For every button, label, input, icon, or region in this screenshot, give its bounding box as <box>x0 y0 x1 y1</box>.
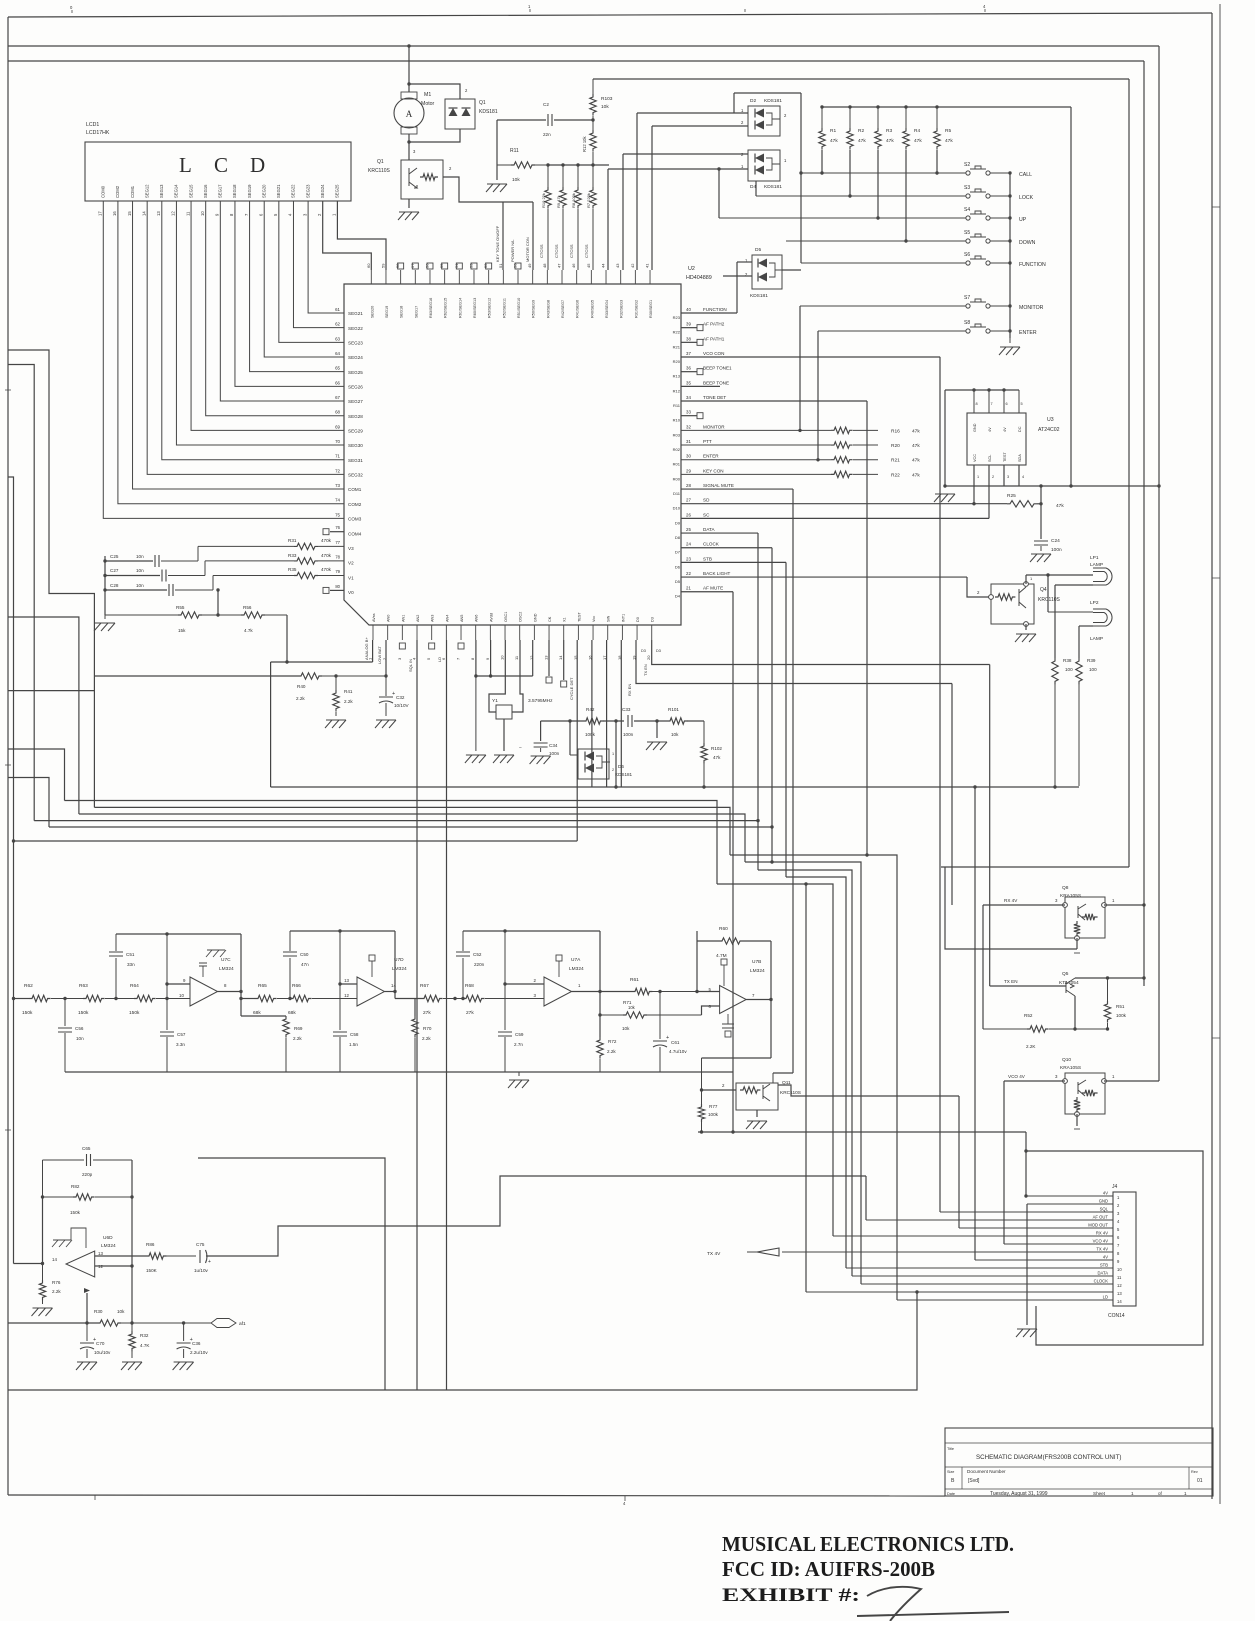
svg-text:28: 28 <box>686 483 691 488</box>
svg-text:R20: R20 <box>673 359 681 364</box>
wire SIGNAL MUTE drop to Q11 area <box>792 489 794 1073</box>
svg-text:34: 34 <box>686 395 691 400</box>
wire C34 top <box>540 721 542 741</box>
svg-text:1u/10v: 1u/10v <box>194 1268 208 1273</box>
wire AF MUTE drop <box>732 592 734 1132</box>
svg-text:AF PATH2: AF PATH2 <box>703 322 725 327</box>
svg-text:D2: D2 <box>750 98 756 104</box>
wire J4 pin 12 CLOCK <box>861 1283 1113 1285</box>
ground at C36 <box>173 1362 194 1370</box>
svg-text:12: 12 <box>344 993 349 998</box>
svg-text:SEG25: SEG25 <box>335 184 340 198</box>
wire U3 top pin 6 <box>1003 390 1005 413</box>
U2 top pin 56 stub <box>429 270 431 284</box>
svg-text:32: 32 <box>686 424 691 429</box>
wire R35 row to R55/R56 node <box>217 590 219 615</box>
handwritten underline <box>857 1612 1009 1616</box>
U2 bottom pin 7 stub <box>460 625 462 640</box>
svg-text:TX EN: TX EN <box>643 664 648 676</box>
wire U2 pin16 down <box>591 640 593 787</box>
wire VCO CON / SQL long vertical <box>939 357 941 1212</box>
resistor R42 100k <box>583 718 603 724</box>
svg-text:R53/SEG12: R53/SEG12 <box>488 298 492 318</box>
U2 bottom pin 6 stub <box>445 625 447 640</box>
svg-text:R32: R32 <box>140 1333 149 1338</box>
svg-text:COM1: COM1 <box>130 185 135 198</box>
svg-text:MUSICAL ELECTRONICS LTD.: MUSICAL ELECTRONICS LTD. <box>722 1532 1014 1556</box>
svg-text:RX EN: RX EN <box>627 684 632 696</box>
wire motor bottom to Q1 transistor <box>408 134 410 160</box>
svg-text:R21: R21 <box>673 344 681 349</box>
wire switch common vertical <box>1009 173 1011 338</box>
transistor Q10 KRA105S <box>1065 1073 1105 1114</box>
capacitor C50 47n <box>289 958 291 999</box>
svg-text:KEY CON: KEY CON <box>703 468 724 473</box>
svg-text:2: 2 <box>534 978 537 983</box>
svg-text:4.7k: 4.7k <box>244 628 253 633</box>
svg-text:COM2: COM2 <box>115 185 120 198</box>
wire crystal to ground <box>503 719 505 751</box>
svg-text:10n: 10n <box>136 583 144 588</box>
wire U2 pin36 stub <box>681 371 697 373</box>
wire step LD <box>730 855 897 1300</box>
svg-text:TX 4V: TX 4V <box>707 1251 721 1257</box>
wire U2 pin34 TONE DET <box>681 400 867 402</box>
svg-text:R55: R55 <box>176 605 185 610</box>
svg-text:13: 13 <box>156 211 161 216</box>
svg-text:D11: D11 <box>673 491 681 496</box>
NC box U2 top pin 58 <box>398 263 404 269</box>
switch S5 DOWN <box>966 239 970 243</box>
switch S2 CALL <box>966 171 970 175</box>
frame left ticks <box>5 390 11 1130</box>
svg-text:D: D <box>250 153 265 177</box>
wire column to U2 pin 44 <box>607 169 609 270</box>
wire to R61 <box>600 991 632 993</box>
ground at Q4 <box>1015 634 1036 642</box>
wire left net C audio input <box>8 477 14 1264</box>
ground at AVdd <box>465 755 486 763</box>
svg-text:SEG17: SEG17 <box>218 184 223 198</box>
svg-text:1: 1 <box>1131 1491 1134 1496</box>
svg-text:−: − <box>519 745 522 751</box>
title block rev cell divider <box>1188 1467 1190 1489</box>
svg-text:R63/SEG16: R63/SEG16 <box>429 298 433 318</box>
wire TONE DET drop <box>866 401 868 855</box>
svg-text:R102: R102 <box>711 746 722 751</box>
svg-text:13: 13 <box>98 1251 103 1256</box>
svg-text:10: 10 <box>200 211 205 216</box>
transistor Q11 KRC110S <box>736 1083 778 1110</box>
svg-text:R5: R5 <box>945 128 951 134</box>
capacitor C27 10n <box>162 570 166 582</box>
svg-text:470k: 470k <box>321 553 332 558</box>
svg-text:AN0: AN0 <box>387 615 391 622</box>
wire U2 pin14 stub down <box>563 640 565 680</box>
resistor R16 47k <box>681 429 831 431</box>
resistor R9 47k <box>562 165 564 187</box>
svg-text:MONITOR: MONITOR <box>703 424 725 429</box>
svg-text:SEG18: SEG18 <box>232 184 237 198</box>
wire bus y787 <box>271 786 1079 788</box>
wire LCD pin 16 to U2 pin 73 <box>133 201 344 489</box>
wire step DATA <box>758 870 852 1276</box>
U2 top pin 53 stub <box>473 270 475 284</box>
svg-text:C51: C51 <box>126 952 135 957</box>
svg-text:FUNCTION: FUNCTION <box>703 307 727 312</box>
svg-text:R40: R40 <box>297 684 306 689</box>
svg-text:75: 75 <box>335 512 340 517</box>
capacitor C70 10u/10v <box>86 1323 88 1341</box>
wire U7A output <box>572 991 600 993</box>
wire D5 to U2 pin40 net <box>736 262 738 313</box>
svg-text:1: 1 <box>784 158 787 163</box>
svg-text:3: 3 <box>1007 475 1009 479</box>
wire TX EN vertical <box>989 665 991 987</box>
svg-text:SEG15: SEG15 <box>188 184 193 198</box>
svg-text:R12: R12 <box>673 388 681 393</box>
svg-text:R4: R4 <box>914 128 920 134</box>
svg-text:63: 63 <box>335 336 340 341</box>
wire 4V rail drop to U3 <box>1070 107 1072 486</box>
resistor R71 10k <box>600 1014 623 1016</box>
wire J4 pin 11 DATA <box>852 1275 1113 1277</box>
U2 bottom pin 9 stub <box>489 625 491 640</box>
svg-text:R101: R101 <box>668 707 679 712</box>
svg-text:2.2k: 2.2k <box>293 1036 302 1041</box>
wire lamp feed <box>1026 574 1093 576</box>
svg-text:LP2: LP2 <box>1090 600 1099 606</box>
wire C2 right <box>554 119 593 121</box>
wire BACK LIGHT to Q4 <box>967 577 991 597</box>
svg-text:22n: 22n <box>543 132 551 137</box>
resistor R5 47k <box>935 105 938 108</box>
svg-text:2: 2 <box>449 166 452 171</box>
svg-text:AN2: AN2 <box>416 615 420 622</box>
wire filter ground rail <box>65 1071 733 1073</box>
wire U2 pin44 to D4 pin1 <box>608 168 748 170</box>
wire U2 pin1 down <box>372 640 374 662</box>
svg-text:KEY TONE ON/OFF: KEY TONE ON/OFF <box>495 225 500 262</box>
svg-text:100k: 100k <box>585 732 596 737</box>
wire gnd tie <box>656 721 658 738</box>
wire left net F <box>8 778 49 828</box>
capacitor C28 10n <box>169 584 173 596</box>
wire fan net 5 <box>49 826 772 828</box>
svg-text:R31: R31 <box>288 538 297 543</box>
switch S7 MONITOR <box>966 304 970 308</box>
frame right ticks <box>1212 207 1220 1038</box>
U2 top pin 42 stub <box>634 270 636 284</box>
svg-text:47k: 47k <box>912 458 920 464</box>
svg-text:SQL IN: SQL IN <box>408 659 413 672</box>
wire J4 pin 6 RX 4V <box>833 1235 1113 1237</box>
resistor R56 4.7k <box>241 612 265 618</box>
svg-text:20: 20 <box>646 655 651 660</box>
svg-text:220p: 220p <box>82 1172 93 1177</box>
wire AF OUT vertical <box>865 1176 867 1220</box>
svg-text:100k: 100k <box>708 1112 719 1117</box>
svg-text:4: 4 <box>1117 1219 1120 1224</box>
wire UP switch to common <box>990 217 1010 219</box>
svg-text:10k: 10k <box>601 104 609 110</box>
svg-text:68k: 68k <box>253 1010 261 1016</box>
svg-text:DC: DC <box>1018 426 1022 432</box>
ground at R41 <box>325 720 346 728</box>
resistor R3 47k <box>876 105 879 108</box>
svg-text:CK: CK <box>548 616 552 622</box>
U2 bottom pin 11 stub <box>519 625 521 640</box>
svg-text:SEG13: SEG13 <box>159 184 164 198</box>
svg-text:71: 71 <box>335 454 340 459</box>
svg-text:47k: 47k <box>1056 503 1064 509</box>
wire R1 to CALL row <box>821 150 823 173</box>
svg-text:100n: 100n <box>623 732 634 737</box>
svg-text:SCL: SCL <box>988 455 992 462</box>
svg-text:2.7n: 2.7n <box>514 1042 523 1047</box>
svg-text:SEG22: SEG22 <box>348 326 363 331</box>
svg-text:6: 6 <box>1006 402 1008 406</box>
wire left net E <box>8 749 65 801</box>
wire LOCK row <box>756 195 966 197</box>
ground at R76 <box>32 1308 53 1316</box>
svg-text:U7A: U7A <box>571 957 581 963</box>
wire Q5 base row <box>990 985 1066 987</box>
wire U2 pin26 SC to U3 <box>681 517 989 519</box>
wire J4 pin 7 VCO 4V <box>1004 1243 1113 1245</box>
ground at C70 <box>76 1362 97 1370</box>
resistor R55 15k <box>105 614 178 616</box>
svg-text:Q8: Q8 <box>1062 885 1069 891</box>
svg-text:SEG16: SEG16 <box>203 184 208 198</box>
svg-text:51: 51 <box>498 263 503 268</box>
svg-text:12: 12 <box>1117 1283 1122 1288</box>
svg-text:FCC ID: AUIFRS-200B: FCC ID: AUIFRS-200B <box>722 1557 935 1581</box>
svg-text:38: 38 <box>686 336 691 341</box>
wire TX EN net <box>652 640 990 665</box>
output arrow TX 4V <box>747 1248 779 1256</box>
svg-text:47k: 47k <box>914 138 922 144</box>
svg-text:Tuesday, August 31, 1999: Tuesday, August 31, 1999 <box>990 1491 1048 1497</box>
svg-text:FUNCTION: FUNCTION <box>1019 262 1046 268</box>
wire left net B <box>8 365 34 821</box>
svg-text:4.7u/10v: 4.7u/10v <box>669 1049 687 1054</box>
svg-text:Y1: Y1 <box>492 698 498 704</box>
svg-text:R60/SEG13: R60/SEG13 <box>473 298 477 318</box>
svg-text:4: 4 <box>623 1501 626 1506</box>
wire R11 left to ground <box>496 165 498 180</box>
wire C75 to AF OUT route <box>206 1176 866 1256</box>
svg-text:C52: C52 <box>473 952 482 957</box>
resistor R10 22k <box>547 165 549 187</box>
svg-text:SEG32: SEG32 <box>348 473 363 478</box>
ground at C34 <box>530 756 551 764</box>
resistor R31 470k <box>197 546 199 561</box>
wire column to U2 pin 42 <box>636 113 638 270</box>
wire U3 top pin 7 <box>988 390 990 413</box>
svg-text:LAMP: LAMP <box>1090 636 1103 642</box>
NC box pin36 <box>697 369 703 375</box>
wire fan net 1 <box>65 801 718 885</box>
wire to U7B non-inverting input <box>697 991 720 993</box>
resistor R101 10k <box>667 718 687 724</box>
wire U7C output <box>218 991 241 993</box>
svg-text:76: 76 <box>335 525 340 530</box>
svg-text:100n: 100n <box>549 751 560 756</box>
svg-text:64: 64 <box>335 351 340 356</box>
svg-text:R9 47k: R9 47k <box>556 195 561 208</box>
resistor R12 10k <box>592 120 594 130</box>
svg-text:59: 59 <box>380 263 385 268</box>
svg-text:INT1: INT1 <box>621 614 625 622</box>
ground for switches <box>999 347 1020 355</box>
svg-text:R70: R70 <box>423 1026 432 1031</box>
svg-text:37: 37 <box>686 351 691 356</box>
resistor R39 100 <box>1076 658 1082 684</box>
svg-text:7: 7 <box>456 657 461 660</box>
NC marker above U7B <box>721 959 727 965</box>
svg-text:R10: R10 <box>673 418 681 423</box>
svg-text:45: 45 <box>586 263 591 268</box>
resistor R102 47k <box>703 721 705 743</box>
wire to R69 <box>241 1015 286 1017</box>
resistor R7 220k <box>592 165 594 187</box>
svg-text:10k: 10k <box>117 1309 125 1314</box>
svg-text:+: + <box>208 1259 211 1265</box>
svg-text:DOWN: DOWN <box>1019 240 1036 246</box>
wire U3 top pin 5 <box>1018 390 1020 413</box>
svg-text:2.2u/10v: 2.2u/10v <box>190 1350 208 1355</box>
frame right border inner <box>1211 13 1213 1499</box>
wire STB drop <box>785 562 787 877</box>
svg-text:AF OUT: AF OUT <box>1093 1215 1109 1220</box>
svg-text:GND: GND <box>533 613 537 622</box>
svg-text:2.2K: 2.2K <box>1026 1044 1036 1049</box>
resistor R86 150K <box>146 1253 166 1259</box>
svg-text:47k: 47k <box>830 138 838 144</box>
wire Q4 emitter <box>1025 624 1027 630</box>
ground under Q1 <box>398 212 419 220</box>
svg-text:R43/SEG8: R43/SEG8 <box>546 300 550 318</box>
wire U3 pin3 to rail <box>1003 465 1005 486</box>
wire ANALOG B+ row <box>271 661 373 663</box>
wire Q4 collector up <box>1025 575 1027 584</box>
svg-text:27k: 27k <box>466 1010 474 1016</box>
wire bus B wrap-down right <box>1143 61 1145 986</box>
svg-text:D5: D5 <box>755 247 761 253</box>
resistor R40 2.2k <box>298 673 322 679</box>
svg-text:4: 4 <box>983 4 986 9</box>
svg-text:6: 6 <box>258 213 263 216</box>
svg-text:12: 12 <box>171 211 176 216</box>
NC box U2 top pin 53 <box>471 263 477 269</box>
svg-text:LAMP: LAMP <box>1090 562 1103 568</box>
svg-text:0: 0 <box>70 5 73 10</box>
resistor R61 <box>632 988 652 994</box>
wire DATA drop <box>757 533 759 870</box>
wire U2 pin13 stub down <box>548 640 550 676</box>
svg-text:R33/SEG4: R33/SEG4 <box>605 300 609 318</box>
svg-text:3: 3 <box>302 213 307 216</box>
svg-text:X1: X1 <box>563 617 567 622</box>
svg-text:KDS181: KDS181 <box>479 109 498 115</box>
svg-text:10: 10 <box>500 655 505 660</box>
svg-text:11: 11 <box>1117 1275 1122 1280</box>
svg-text:80: 80 <box>335 584 340 589</box>
wire J4 pin 8 TX 4V <box>782 1251 1113 1253</box>
NC box U2 top pin 55 <box>442 263 448 269</box>
svg-text:1: 1 <box>1030 576 1033 581</box>
svg-text:R62: R62 <box>24 983 33 989</box>
resistor R68 27k <box>463 995 485 1001</box>
wire J4 GND drop <box>1026 1204 1028 1325</box>
svg-text:CTCSS: CTCSS <box>569 244 574 258</box>
resistor R66 68k <box>290 995 312 1001</box>
wire cap cluster left rail <box>104 556 106 615</box>
wire fan net 4 <box>34 820 758 822</box>
wire U2 pin35 BEEP TONE <box>681 385 720 387</box>
svg-text:2.2k: 2.2k <box>422 1036 431 1041</box>
svg-text:10k: 10k <box>628 1005 636 1010</box>
NC box U2 bottom pin 5 <box>429 643 435 649</box>
svg-text:S3: S3 <box>964 185 970 191</box>
svg-text:SEG20: SEG20 <box>261 184 266 198</box>
svg-text:D8: D8 <box>675 535 681 540</box>
svg-text:68: 68 <box>335 410 340 415</box>
NC box pin38 <box>697 339 703 345</box>
svg-text:47k: 47k <box>912 428 920 434</box>
wire KEY TONE ON/OFF to U2 pin 51 <box>502 202 504 270</box>
svg-text:R42/SEG7: R42/SEG7 <box>561 300 565 318</box>
resistor R76 2.2k <box>42 1264 44 1281</box>
svg-text:V1: V1 <box>348 575 354 580</box>
wire left net D <box>8 617 79 814</box>
svg-text:RX 4V: RX 4V <box>1096 1231 1108 1236</box>
svg-text:7: 7 <box>1117 1243 1120 1248</box>
svg-text:R61/SEG14: R61/SEG14 <box>458 298 462 318</box>
svg-text:AN4: AN4 <box>445 615 449 622</box>
wire step CLOCK <box>745 862 861 1284</box>
svg-text:D7: D7 <box>675 550 681 555</box>
svg-text:1: 1 <box>612 752 614 756</box>
svg-text:LD: LD <box>1103 1295 1108 1300</box>
svg-text:7: 7 <box>244 213 249 216</box>
svg-text:SEG31: SEG31 <box>348 458 363 463</box>
wire D2 pin1 drop <box>733 93 735 113</box>
svg-text:6: 6 <box>1117 1235 1120 1240</box>
svg-text:Sheet: Sheet <box>1093 1491 1106 1496</box>
svg-text:25: 25 <box>686 527 691 532</box>
wire Q10 base drop to J4 <box>1003 1081 1005 1244</box>
svg-text:SEG25: SEG25 <box>348 370 363 375</box>
svg-text:SQL: SQL <box>1100 1207 1109 1212</box>
svg-text:U7B: U7B <box>752 959 761 965</box>
svg-text:EXHIBIT #:: EXHIBIT #: <box>722 1585 860 1606</box>
ground on filter rail <box>508 1080 529 1088</box>
wire FUNCTION switch to common <box>990 262 1010 264</box>
wire Q8 emitter stub <box>1076 938 1078 949</box>
connector J4 CON14 <box>1113 1192 1136 1306</box>
ground at crystal <box>493 755 514 763</box>
svg-text:AN5: AN5 <box>460 615 464 622</box>
resistor R70 2.2k <box>412 1016 418 1038</box>
svg-text:AVdd: AVdd <box>489 613 493 622</box>
svg-text:21: 21 <box>686 586 691 591</box>
ground at R11 <box>486 184 507 192</box>
svg-text:43: 43 <box>615 263 620 268</box>
wire osc gnd tie <box>476 675 533 677</box>
svg-text:KDS181: KDS181 <box>750 293 768 299</box>
